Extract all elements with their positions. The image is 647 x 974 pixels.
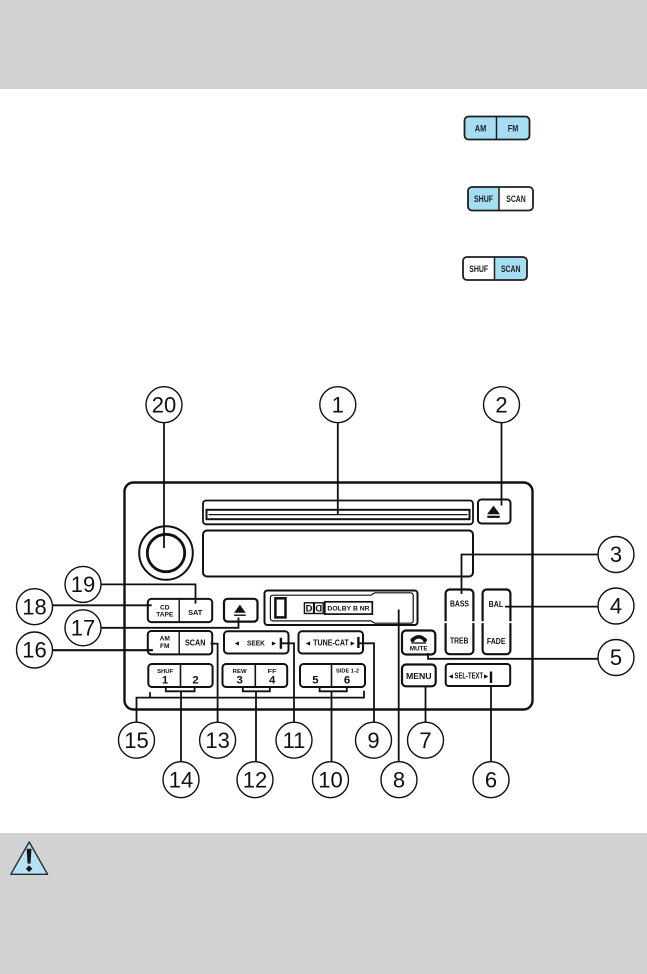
svg-text:TUNE-CAT: TUNE-CAT: [313, 637, 349, 647]
svg-text:AM: AM: [160, 636, 171, 643]
svg-text:1: 1: [162, 675, 169, 687]
svg-text:FADE: FADE: [487, 637, 506, 646]
bracket under presets 1/2: [166, 687, 195, 691]
svg-text:5: 5: [610, 645, 622, 670]
SEEK button: [224, 631, 289, 653]
svg-text:20: 20: [152, 392, 176, 417]
callout circle 1: [320, 387, 356, 423]
svg-text:2: 2: [192, 675, 198, 687]
svg-text:SEEK: SEEK: [247, 638, 265, 647]
tape door: [265, 591, 418, 626]
svg-text:2: 2: [495, 392, 507, 417]
callout line 4: [505, 606, 598, 608]
svg-text:D: D: [315, 604, 322, 615]
callout line 17: [101, 618, 239, 628]
callout line 11: [282, 643, 294, 722]
svg-text:SCAN: SCAN: [501, 264, 521, 274]
callout line 10: [331, 691, 333, 761]
callout circle 16: [17, 632, 53, 668]
CD eject button: [478, 500, 511, 524]
svg-text:18: 18: [22, 594, 46, 619]
svg-text:6: 6: [344, 675, 350, 687]
svg-text:SAT: SAT: [188, 608, 203, 617]
display window: [203, 531, 473, 577]
bracket under presets 5/6: [320, 687, 347, 691]
svg-text:DOLBY B NR: DOLBY B NR: [327, 606, 369, 613]
preset 1/2 button: [148, 664, 212, 687]
callout line 6: [490, 687, 492, 762]
svg-text:◄: ◄: [233, 640, 240, 647]
svg-text:FM: FM: [508, 123, 519, 133]
callout circle 17: [65, 610, 101, 646]
callout circle 8: [381, 762, 417, 798]
callout circle 10: [313, 762, 349, 798]
BAL FADE button: [481, 590, 512, 655]
svg-text:►: ►: [271, 640, 278, 647]
callout line 13: [211, 644, 218, 723]
svg-text:12: 12: [243, 767, 267, 792]
svg-text:11: 11: [283, 728, 306, 753]
svg-text:8: 8: [393, 767, 405, 792]
callout circle 4: [598, 588, 634, 624]
svg-text:17: 17: [71, 616, 95, 641]
tape eject button: [224, 599, 258, 622]
DOLBY B NR label: [325, 602, 373, 614]
CD slot: [207, 510, 470, 519]
svg-text:3: 3: [237, 675, 243, 687]
callout circle 13: [200, 722, 236, 758]
preset 3/4 button: [223, 664, 288, 687]
callout line 3: [462, 555, 599, 595]
callout circle 20: [146, 387, 182, 423]
svg-text:◄: ◄: [447, 671, 454, 680]
callout line 15: [137, 691, 365, 722]
top header band: [0, 0, 647, 89]
callout line 1: [337, 423, 339, 515]
callout line 9: [360, 643, 375, 722]
svg-text:5: 5: [312, 675, 319, 687]
AM FM / SCAN button: [148, 631, 212, 654]
svg-text:SHUF: SHUF: [469, 264, 488, 274]
svg-text:16: 16: [22, 638, 46, 663]
bottom footer band: [0, 833, 647, 974]
SHUF/SCAN button (SCAN highlighted): [463, 257, 527, 280]
cassette window: [275, 598, 285, 617]
callout line 12: [255, 691, 257, 761]
callout line 16: [53, 649, 153, 651]
preset 5/6 button: [300, 664, 365, 687]
callout line 20: [163, 423, 165, 548]
callout circle 2: [484, 387, 520, 423]
dolby double-D logo: [304, 603, 323, 615]
svg-text:10: 10: [318, 767, 342, 792]
callout circle 14: [163, 762, 199, 798]
CD TAPE / SAT button: [148, 599, 212, 622]
svg-text:4: 4: [610, 594, 622, 619]
svg-text:SCAN: SCAN: [185, 638, 206, 647]
svg-text:►: ►: [349, 640, 356, 647]
SHUF/SCAN button (SHUF highlighted): [468, 187, 533, 211]
SEL-TEXT button: [446, 664, 511, 686]
callout line 2: [501, 423, 503, 506]
svg-text:TREB: TREB: [450, 637, 469, 646]
callout circle 3: [598, 537, 634, 573]
radio faceplate outline: [125, 483, 533, 710]
TUNE-CAT button: [299, 631, 364, 653]
callout circle 12: [237, 762, 273, 798]
callout line 18: [53, 604, 152, 606]
MENU button: [402, 665, 436, 687]
callout circle 19: [65, 566, 101, 602]
svg-text:AM: AM: [475, 123, 487, 133]
svg-text:◄: ◄: [305, 640, 312, 647]
callout line 5: [428, 653, 598, 659]
svg-text:15: 15: [124, 728, 148, 753]
callout line 7: [425, 687, 427, 722]
svg-text:MENU: MENU: [406, 671, 432, 681]
svg-text:CD: CD: [160, 604, 170, 611]
svg-text:3: 3: [610, 542, 622, 567]
svg-text:MUTE: MUTE: [410, 645, 428, 652]
svg-text:SEL-TEXT: SEL-TEXT: [455, 671, 484, 680]
callout circle 18: [17, 589, 53, 625]
MUTE button: [402, 631, 435, 655]
svg-text:BASS: BASS: [450, 599, 470, 608]
svg-text:9: 9: [367, 728, 379, 753]
AM/FM button: [465, 117, 530, 140]
callout circle 15: [119, 722, 155, 758]
callout circle 6: [473, 762, 509, 798]
svg-text:SCAN: SCAN: [506, 194, 526, 204]
callout circle 11: [276, 722, 312, 758]
warning triangle: [11, 842, 48, 874]
svg-text:14: 14: [169, 767, 193, 792]
svg-text:7: 7: [419, 728, 431, 753]
svg-text:1: 1: [332, 392, 344, 417]
svg-text:►: ►: [483, 671, 490, 680]
BASS TREB button: [444, 590, 475, 655]
callout circle 5: [598, 640, 634, 676]
callout circle 9: [356, 722, 392, 758]
svg-text:SHUF: SHUF: [474, 194, 493, 204]
callout line 19: [101, 584, 196, 603]
callout line 14: [180, 691, 182, 761]
svg-text:4: 4: [269, 675, 276, 687]
svg-text:BAL: BAL: [489, 600, 504, 609]
callout line 8: [398, 610, 400, 762]
bracket under presets 3/4: [243, 687, 270, 691]
svg-text:TAPE: TAPE: [156, 612, 174, 619]
svg-text:13: 13: [205, 728, 229, 753]
svg-text:6: 6: [485, 767, 497, 792]
svg-text:D: D: [306, 604, 313, 615]
svg-text:FM: FM: [160, 643, 170, 650]
svg-text:19: 19: [71, 572, 95, 597]
volume knob: [139, 526, 193, 580]
CD slot bezel: [203, 501, 473, 525]
callout circle 7: [408, 722, 444, 758]
